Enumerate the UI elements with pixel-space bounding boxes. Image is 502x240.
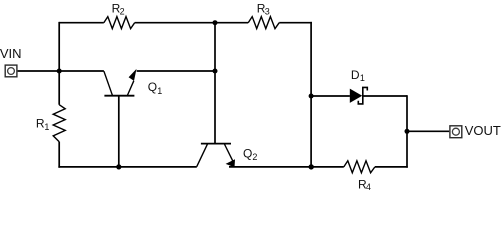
terminal VIN symbol [5, 65, 17, 77]
svg-text:VIN: VIN [0, 46, 21, 61]
resistor R1 [53, 105, 65, 142]
transistor Q2 collector diagonal [197, 144, 208, 167]
label R3 [257, 1, 270, 16]
svg-text:Q: Q [148, 80, 157, 94]
resistor R4 [344, 161, 375, 173]
transistor Q1 collector diagonal [104, 71, 113, 95]
wire D1 cathode lead [363, 95, 407, 97]
wire bottom rail left [58, 166, 196, 168]
transistor Q2 base bar [201, 143, 231, 145]
junction dot VIN node [57, 69, 62, 74]
label D1 [351, 68, 365, 83]
svg-text:D: D [351, 68, 360, 82]
wire left vertical upper [58, 22, 60, 105]
terminal VOUT symbol [450, 126, 462, 138]
label R2 [112, 1, 125, 16]
label R1 [36, 117, 50, 132]
svg-text:1: 1 [157, 86, 162, 96]
junction dot node B top rail [213, 20, 218, 25]
label R4 [358, 178, 371, 193]
diode D1 cathode zener bar [358, 87, 367, 104]
junction dot D1 anode node [309, 94, 314, 99]
transistor Q2 emitter arrow [226, 159, 235, 167]
resistor R3 [248, 17, 279, 29]
diode D1 anode triangle [350, 89, 362, 103]
junction dot VOUT node [405, 129, 410, 134]
resistor R2 [104, 17, 135, 29]
wire R3 vertical drop [310, 22, 312, 167]
wire right vertical [406, 95, 408, 168]
wire top rail left segment [59, 22, 104, 24]
wire Q1 emitter to node B [137, 70, 215, 72]
wire bottom rail right to R4 [229, 166, 344, 168]
svg-text:2: 2 [252, 152, 257, 162]
junction dot node B emitter [213, 69, 218, 74]
wire D1 anode lead [311, 95, 350, 97]
wire left vertical lower [58, 142, 60, 168]
label Q1 [148, 80, 163, 96]
wire R4 to right corner [375, 166, 408, 168]
svg-text:4: 4 [366, 182, 371, 192]
junction dot bottom rail R3 drop [309, 164, 314, 169]
junction dot Q1 base on bottom rail [116, 164, 121, 169]
wire node B vertical [214, 22, 216, 144]
transistor Q1 base lead [118, 96, 120, 167]
transistor Q1 emitter arrow [129, 69, 137, 81]
transistor Q2 emitter diagonal [224, 144, 233, 162]
wire top rail right segment [279, 22, 312, 24]
wire top rail middle segment [135, 22, 249, 24]
svg-text:3: 3 [265, 7, 270, 17]
label Q2 [243, 146, 257, 162]
transistor Q1 emitter diagonal [127, 81, 133, 96]
svg-text:1: 1 [44, 122, 49, 132]
wire VOUT lead [407, 130, 449, 132]
svg-text:VOUT: VOUT [465, 123, 501, 138]
svg-text:1: 1 [360, 73, 365, 83]
transistor Q1 base bar [104, 95, 134, 97]
wire VIN to junction [18, 70, 60, 72]
wire junction to Q1 collector [59, 70, 104, 72]
svg-text:Q: Q [243, 146, 252, 160]
svg-text:2: 2 [120, 7, 125, 17]
